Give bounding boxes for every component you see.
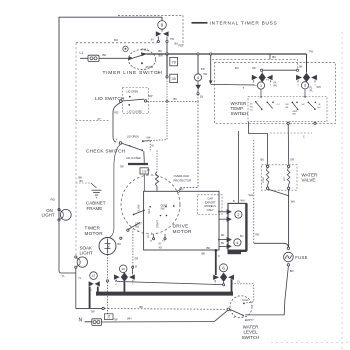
svg-text:7W: 7W [120,164,125,168]
svg-text:BW: BW [159,54,164,58]
timer contact 12 [90,272,98,280]
svg-text:7W: 7W [309,49,314,53]
svg-text:RD: RD [115,111,119,115]
svg-text:7W: 7W [170,37,175,41]
svg-text:FRAME: FRAME [87,206,103,211]
svg-text:4C: 4C [250,104,253,106]
svg-text:FUSE: FUSE [295,255,307,260]
svg-text:LIGHT: LIGHT [80,250,94,255]
wire YL from cam 6 to water level switch full contact [232,284,254,304]
svg-text:IFU: IFU [274,86,278,88]
water valve output wire WA down to fuse [268,189,288,196]
svg-text:MOTOR: MOTOR [173,229,193,235]
fuse [287,247,289,249]
svg-text:1B: 1B [200,95,203,99]
svg-text:YL: YL [78,276,82,280]
svg-text:BK: BK [79,176,83,180]
timer motor output down through neutral to connector [107,255,109,280]
svg-text:SWITCH: SWITCH [242,335,260,340]
water temp inner contacts group A [255,101,257,103]
timer contact 3 with contact cluster [296,73,317,87]
svg-text:COLD: COLD [263,177,265,183]
svg-text:EXPORT: EXPORT [205,200,216,204]
svg-text:6Y: 6Y [159,242,162,245]
svg-text:PROTECTOR: PROTECTOR [174,179,192,183]
contact switch of cam 12 [89,281,94,286]
contact cluster of cam 6 [213,273,234,287]
svg-text:SLOW: SLOW [138,204,141,212]
svg-text:CAP: CAP [207,197,213,201]
connector terminal 2 [235,211,242,218]
svg-text:RD: RD [221,235,225,237]
svg-text:YL: YL [62,274,66,278]
svg-text:5W: 5W [203,72,207,76]
svg-text:RD: RD [256,232,260,236]
water temp inner contacts group B [267,102,269,104]
svg-text:BU: BU [272,55,276,59]
svg-text:T: T [243,86,245,90]
contact switch of cam 9 (two triangles) [161,29,163,31]
svg-text:INTERNAL TIMER BUSS: INTERNAL TIMER BUSS [210,21,278,26]
wire cam 4 line down to motor top [180,101,198,191]
capacitor export models dashed box [198,195,223,215]
svg-text:WC: WC [250,107,254,109]
svg-text:6W: 6W [149,94,153,98]
svg-text:WC: WC [286,104,290,106]
check switch contacts [119,142,122,145]
timer contact 4 [197,53,199,55]
wire from cam 9 right terminal down to internal timer buss [166,43,168,54]
cam 6 right contact thick drop to neutral buss [231,279,233,293]
wire from box terminal to hot valve coil (OR) [287,125,290,165]
svg-text:LID CLOSED: LID CLOSED [128,111,143,114]
cam 6 diamond terminal and wire to cam 10 [223,282,225,284]
wire lid common down to check switch common [113,102,121,142]
terminal 0 of timer line switch [123,46,128,51]
water valve dashed box [262,165,298,190]
svg-text:SW: SW [161,208,166,211]
svg-text:HOT: HOT [284,176,286,181]
timer contact 1 with contact cluster [252,73,273,87]
svg-text:6W: 6W [147,135,151,139]
cam box 30 [170,74,178,82]
svg-text:BK: BK [202,252,206,256]
thick neutral buss [96,292,233,296]
cam 10 left contact drop [115,280,117,282]
wire from buss down through cams 70/30 [166,54,168,76]
svg-text:WH: WH [241,199,245,202]
svg-text:LID SWITCH: LID SWITCH [95,96,125,102]
svg-text:CC: CC [277,104,281,106]
contact switch of cam 4 [197,81,199,85]
svg-text:LIGHT: LIGHT [42,213,56,218]
svg-text:RED: RED [148,209,151,214]
svg-text:70: 70 [171,59,176,64]
water temp switch outer dashed box [215,63,336,124]
legend internal timer buss [192,22,208,24]
dashed wire BU above water temp switch box [212,59,298,69]
svg-text:BK: BK [103,53,107,57]
svg-text:FA: FA [274,81,277,84]
cam 10 right contact wire up (OR) [132,268,134,274]
svg-text:OR: OR [290,158,294,162]
cold water valve solenoid [266,165,268,167]
svg-text:BU: BU [114,38,118,42]
wire lid switch output to cam 4 line (BK) [147,100,197,102]
terminals on water temp box bottom edge [287,122,289,124]
soak light lamp [75,256,77,258]
svg-text:N: N [79,317,83,323]
wire YL from soak light junction down to N corner [75,273,77,309]
lid switch contacts [120,100,123,103]
svg-text:START: START [157,220,160,228]
svg-text:HC: HC [318,107,322,109]
svg-text:N: N [218,255,220,258]
svg-text:CM: CM [241,114,245,116]
wire from inner box to cold valve coil (BU) [249,122,268,165]
svg-text:7W: 7W [114,318,118,322]
svg-text:WH: WH [249,193,253,197]
svg-text:LID CLOSED: LID CLOSED [126,157,141,160]
svg-text:BK: BK [159,49,163,53]
N wire from cam 12 to water level switch common [76,308,102,310]
wire RD from connector area to fuse top [253,140,255,243]
timer contact 9 [158,21,167,30]
cam 10 diamond thick drop to neutral buss [123,282,125,294]
wire from ON light down then right to soak light junction [59,221,76,273]
motor connector block with terminals 2 and 4 [228,203,246,250]
stub wires from motor box to connector block [219,211,227,213]
lid switch dashed box [123,88,149,114]
timer contact 6 [220,264,228,272]
svg-text:CHECK SWITCH: CHECK SWITCH [86,148,126,154]
water level switch dashed circle [230,296,252,318]
connector box 2A CT [104,314,113,320]
svg-text:BU: BU [221,243,225,245]
svg-text:WA: WA [291,200,295,204]
svg-text:PUSH: PUSH [146,65,154,69]
svg-text:FULL: FULL [243,298,250,302]
svg-text:EMPTY: EMPTY [245,318,254,322]
hot water valve solenoid [287,165,289,167]
svg-text:DRIVE: DRIVE [173,223,189,229]
svg-text:HC: HC [302,104,306,106]
svg-text:TIMER: TIMER [85,226,101,231]
svg-text:VALVE: VALVE [302,178,316,183]
check switch output to connector 2YB [143,151,146,163]
svg-text:CC: CC [250,110,254,112]
svg-text:6Y: 6Y [151,38,155,42]
wire buss corner down to contact 3 [306,54,308,73]
svg-text:OH: OH [156,71,160,75]
fuse output wire down to water level switch empty contact [245,266,288,315]
internal timer buss horizontal wire [147,53,307,55]
svg-text:ONLY: ONLY [207,208,214,212]
svg-text:GY: GY [147,169,151,172]
svg-text:BU: BU [118,242,122,246]
svg-text:LID OPEN: LID OPEN [127,91,139,94]
svg-text:SW: SW [135,226,140,229]
svg-text:WH: WH [317,86,321,89]
contact cluster of cam 10 [114,272,135,286]
svg-text:BU: BU [235,66,239,70]
svg-text:5W: 5W [201,67,205,71]
wire RD from timer line switch 9 to ON light, left/top run [59,17,162,220]
svg-text:4O: 4O [159,246,162,249]
svg-text:C: C [303,135,305,138]
svg-text:(PUL): (PUL) [141,48,148,52]
water level switch contacts [227,308,230,311]
svg-text:BK: BK [80,179,84,183]
svg-text:12: 12 [92,274,96,278]
svg-text:LID OPEN: LID OPEN [127,135,139,138]
feed wire 5W from buss into water temp switch [210,53,212,55]
svg-text:7W: 7W [91,310,95,314]
timer line switch (dashed cam circle, blade, push dot) [128,50,155,70]
svg-text:TIMER LINE SWITCH: TIMER LINE SWITCH [103,70,163,76]
svg-text:BR: BR [290,269,294,273]
overload protector element [156,151,158,172]
svg-text:2YB: 2YB [142,172,147,174]
svg-text:10: 10 [121,267,125,271]
water temp switch inner dashed box [248,97,327,122]
water temp inner contacts group C [292,102,294,104]
svg-text:BK: BK [140,305,144,309]
dashed enclosure around timer contact 9 [118,16,183,46]
svg-text:OR: OR [134,256,138,260]
wire BU dashed from timer box edge to cam 9 left terminal [76,42,157,44]
svg-text:BFW: BFW [293,111,298,113]
ON light lamp [58,209,60,211]
svg-text:(YL): (YL) [109,244,111,248]
svg-text:OVERLOAD: OVERLOAD [174,174,190,178]
svg-text:YL: YL [237,279,241,283]
svg-text:BU: BU [240,235,244,238]
svg-text:L1: L1 [80,51,84,55]
thick feed from motor frame down to cam 6 contact [214,249,217,252]
wire linking contact 1 and 3 tops [262,69,298,71]
svg-text:BK: BK [207,246,211,250]
svg-text:30: 30 [171,76,176,81]
water temp inner contacts group D [308,102,310,104]
svg-text:M: M [135,267,137,269]
connector terminal 4 [234,239,241,246]
wire from check switch area down to timer motor [110,145,121,238]
drive motor inner box [144,191,219,250]
svg-text:BK: BK [174,97,178,101]
svg-text:MOTOR: MOTOR [85,231,104,236]
svg-text:WH: WH [127,316,132,320]
drive motor dashed circle [121,175,180,234]
wire WH into connector 2 from above [237,131,239,203]
timer contact 10 [119,265,127,273]
black junction bar at motor connector bottom [228,250,242,255]
cam box 70 [170,57,178,65]
wire 6Y dashed from timer edge to lid area [76,119,109,121]
big dashed timer boundary left edge [75,43,77,256]
svg-text:BU: BU [175,42,179,46]
svg-text:BU: BU [261,158,265,162]
cam 12 right contact thick drop to neutral buss [97,287,99,294]
wires from contacts 1 and 3 into inner box [260,89,262,96]
svg-text:SWITCH: SWITCH [231,111,249,116]
cam 12 left contact thick drop to N wire [89,287,91,309]
ground cabinet frame symbol [76,182,91,184]
svg-text:TEMP: TEMP [231,106,244,111]
svg-text:MODELS: MODELS [205,204,217,208]
